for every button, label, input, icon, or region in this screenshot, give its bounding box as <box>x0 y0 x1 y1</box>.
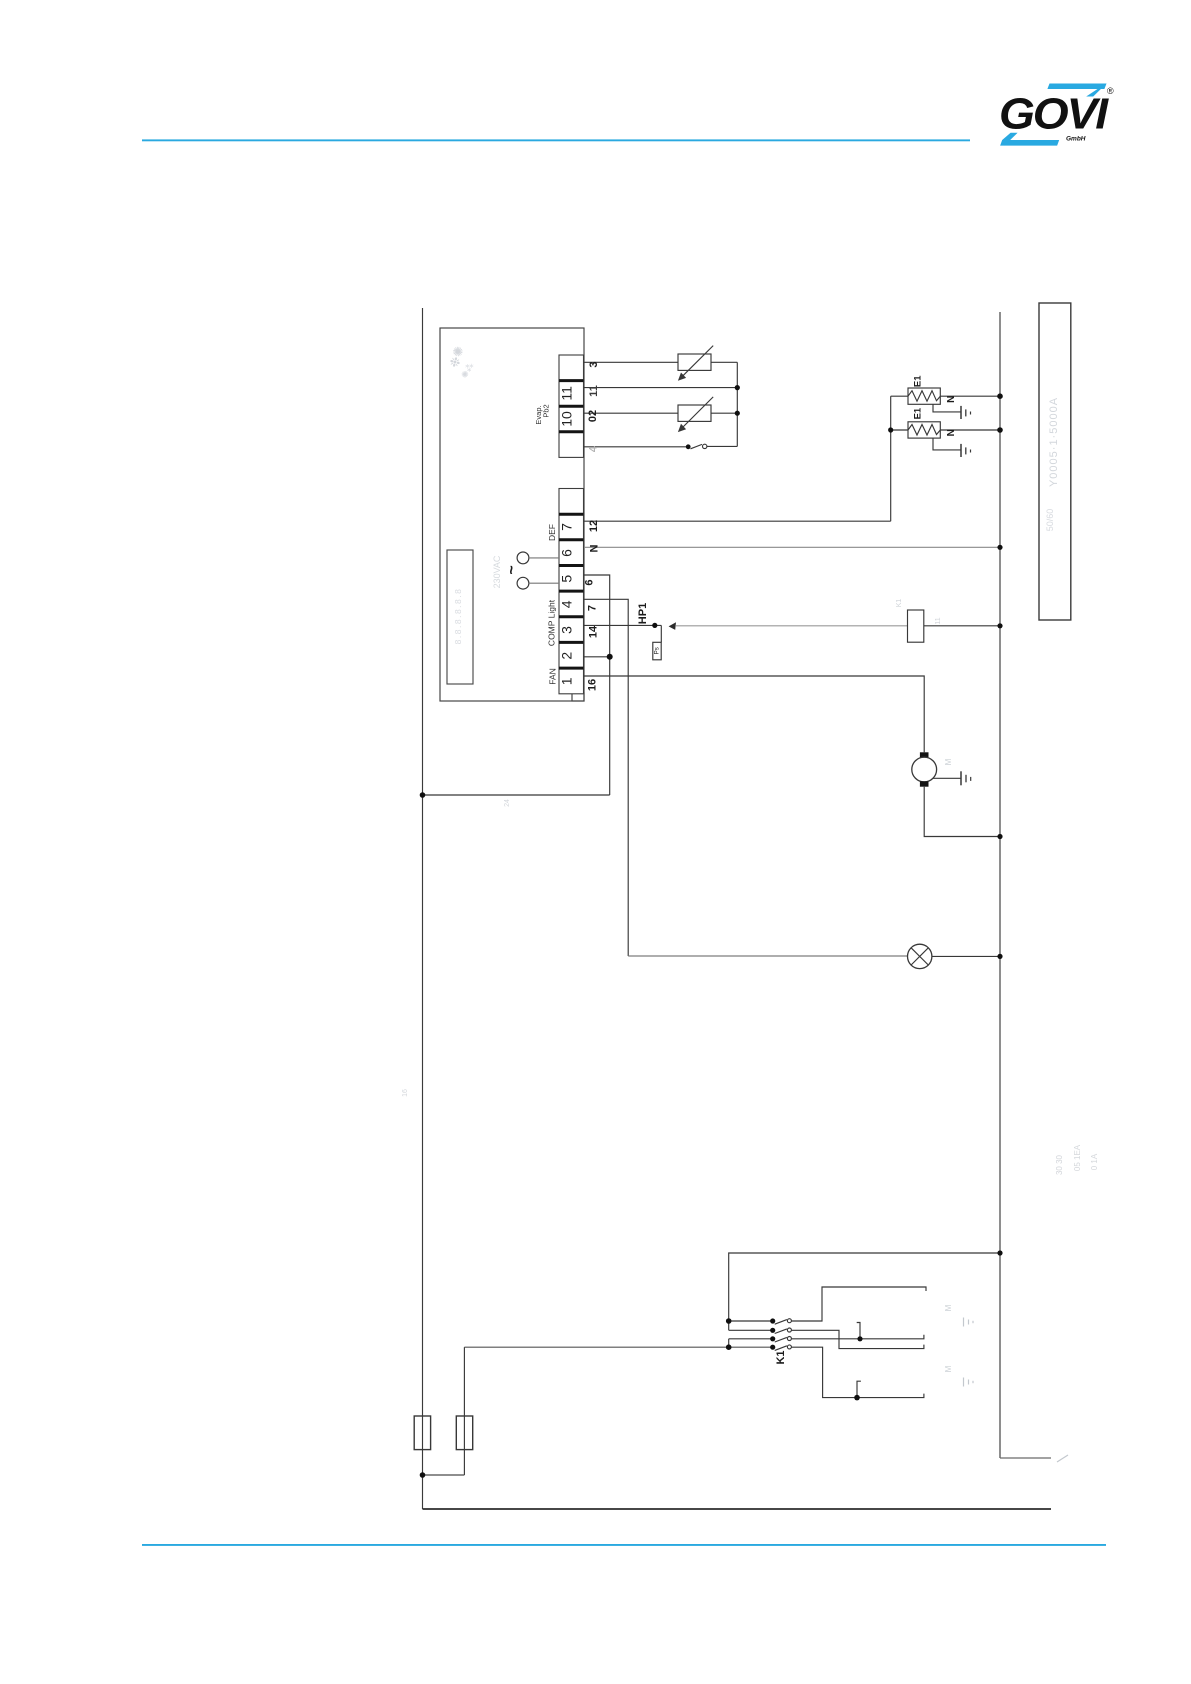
relay coil K1 <box>908 610 924 642</box>
svg-text:3: 3 <box>559 626 575 634</box>
node row4 stub <box>854 1395 860 1401</box>
svg-text:COMP Light: COMP Light <box>547 599 557 646</box>
K1 moving contact pivots <box>770 1318 775 1323</box>
K1 rows 3-4 jumper <box>728 1339 730 1347</box>
node wire02/probe <box>735 411 740 416</box>
row 4 stub <box>857 1381 861 1397</box>
svg-text:HP1: HP1 <box>637 603 649 624</box>
wire 7 (terminal 4) <box>584 599 628 956</box>
terminal block lower (1-7) <box>559 489 584 694</box>
svg-text:N: N <box>589 544 601 552</box>
K1 contact row 1 wire <box>729 1320 773 1322</box>
svg-text:5: 5 <box>559 575 575 583</box>
defrost switch contact <box>691 444 703 448</box>
wire 16 (terminal 1) <box>584 676 924 752</box>
K1 output row 2 <box>791 1330 924 1348</box>
node heater left <box>888 427 893 432</box>
svg-text:7: 7 <box>587 605 599 611</box>
wire 3 <box>584 361 678 363</box>
K1 output row 3 <box>791 1335 924 1339</box>
node N bus <box>997 545 1002 550</box>
row 3 stub <box>857 1323 860 1339</box>
K1 contact 2 <box>775 1329 787 1334</box>
right supply bus N <box>999 312 1001 1458</box>
svg-text:K1: K1 <box>896 599 903 608</box>
HP1 pressure switch <box>660 625 662 642</box>
wire 11 <box>584 387 737 389</box>
fuse F2 <box>456 1416 472 1450</box>
svg-text:16: 16 <box>402 1089 409 1097</box>
K1 contact 4 <box>775 1346 787 1351</box>
left supply bus L <box>422 308 424 1509</box>
heater E1a left wire <box>891 395 908 397</box>
GOVI logo blue bottom bracket <box>1000 140 1059 146</box>
svg-text:24: 24 <box>504 799 511 807</box>
svg-text:16: 16 <box>587 679 599 691</box>
K1 contact row 3 wire <box>729 1338 773 1340</box>
F2 to left bus <box>423 1474 465 1476</box>
K1 feed from bus <box>729 1253 1000 1330</box>
wire N <box>584 546 1000 548</box>
node terminal2 <box>607 654 613 660</box>
AC supply terminal b <box>517 577 529 589</box>
K1 contact 1 <box>775 1320 787 1325</box>
svg-text:2: 2 <box>559 652 575 660</box>
heater E1a <box>908 388 940 404</box>
header rule <box>142 139 970 141</box>
node coil bus <box>997 623 1002 628</box>
controller display window <box>447 550 473 684</box>
svg-text:8.8.8.8.8.8: 8.8.8.8.8.8 <box>453 588 463 645</box>
svg-text:05 1EA: 05 1EA <box>1073 1144 1082 1171</box>
svg-text:Y0005·1·5000A: Y0005·1·5000A <box>1048 397 1060 487</box>
node motor bus <box>997 834 1002 839</box>
motor to bus <box>924 787 1000 837</box>
wire terminal 2 <box>584 656 610 658</box>
motor ground <box>933 777 961 779</box>
K1 output row 1 <box>791 1287 926 1321</box>
fan motor M1 <box>920 752 929 757</box>
lamp H1 <box>908 944 932 968</box>
node K1 row1 <box>726 1318 732 1324</box>
lamp to bus <box>932 955 1000 957</box>
svg-text:N: N <box>946 429 957 436</box>
svg-text:50/60: 50/60 <box>1045 509 1055 532</box>
box bottom notch <box>572 693 584 701</box>
node wire11/probe <box>735 385 740 390</box>
K1 contact row 2 wire <box>729 1329 773 1331</box>
lamp feed wire <box>628 955 907 957</box>
svg-text:M: M <box>944 758 953 765</box>
footer rule <box>142 1544 1106 1546</box>
wire 4 <box>584 446 686 448</box>
node lamp bus <box>997 954 1002 959</box>
probe Pb2 (variable resistor) <box>678 405 711 421</box>
svg-text:14: 14 <box>588 625 600 638</box>
svg-text:11: 11 <box>588 385 600 397</box>
svg-text:E1: E1 <box>913 375 924 387</box>
svg-text:12: 12 <box>588 520 600 532</box>
faded ground near K1 row1 <box>963 1318 965 1327</box>
fuse F1 <box>414 1416 430 1450</box>
svg-text:6: 6 <box>559 549 575 557</box>
heater E1b to bus <box>940 429 1000 431</box>
node E1b bus <box>997 427 1003 433</box>
faded diagonal mark <box>1057 1455 1068 1462</box>
bottom return line <box>423 1508 1052 1510</box>
svg-text:02: 02 <box>587 410 599 422</box>
heater E1b <box>908 422 940 438</box>
fuse feed wire to K1 row 4 <box>464 1346 772 1348</box>
svg-text:FAN: FAN <box>548 668 558 685</box>
faded ground near K1 row4 <box>963 1378 965 1387</box>
AC supply terminal a <box>517 552 529 564</box>
svg-text:DEF: DEF <box>547 524 557 541</box>
wire 6 (terminal 5) <box>584 575 610 795</box>
terminal block upper (Evap/Pb2) <box>559 355 584 457</box>
probe Pb1 (variable resistor) <box>678 354 711 370</box>
svg-text:6: 6 <box>584 579 596 585</box>
svg-text:Ps: Ps <box>654 647 661 654</box>
K1 output row 4 <box>791 1347 924 1397</box>
svg-text:30 30: 30 30 <box>1055 1154 1064 1175</box>
wire 12 riser <box>890 396 892 521</box>
node left bus <box>420 792 426 798</box>
node defrost switch <box>686 444 691 449</box>
svg-text:E1: E1 <box>913 407 924 419</box>
coil to bus <box>924 625 1000 627</box>
svg-text:~: ~ <box>504 565 521 574</box>
svg-text:Pb2: Pb2 <box>542 404 551 417</box>
GOVI logo blue top bracket <box>1000 84 1106 146</box>
K1 contact 3 <box>775 1337 787 1342</box>
wire 02 to node <box>711 412 737 414</box>
node fuse bus <box>420 1472 426 1478</box>
probe common vertical <box>736 362 738 446</box>
svg-text:N: N <box>946 396 957 403</box>
svg-text:3: 3 <box>588 361 600 367</box>
heater E1a to bus <box>940 395 1000 397</box>
svg-text:230VAC: 230VAC <box>492 555 502 588</box>
node K1 bus <box>997 1250 1002 1255</box>
svg-text:10: 10 <box>559 411 575 427</box>
svg-text:K1: K1 <box>775 1350 787 1364</box>
heater E1b ground <box>933 438 961 450</box>
wire 12 <box>584 520 891 522</box>
heater E1a ground <box>933 404 961 412</box>
svg-text:M: M <box>944 1304 953 1311</box>
controller box U1 <box>440 328 584 701</box>
svg-text:11: 11 <box>559 386 575 401</box>
svg-text:®: ® <box>1107 86 1114 96</box>
svg-text:4: 4 <box>559 600 575 608</box>
wire 02 <box>584 412 678 414</box>
svg-text:GmbH: GmbH <box>1066 136 1086 143</box>
node E1a bus <box>997 393 1003 399</box>
svg-text:GOVI: GOVI <box>999 90 1109 139</box>
wire 14 <box>584 624 661 626</box>
svg-text:7: 7 <box>559 523 575 531</box>
right bus bottom stub <box>1000 1457 1051 1459</box>
wire to left bus <box>423 794 610 796</box>
wire 3 to node <box>711 361 737 363</box>
svg-text:0 1A: 0 1A <box>1090 1153 1099 1170</box>
node row3 stub <box>857 1336 862 1341</box>
node HP1 <box>652 623 657 628</box>
svg-text:11: 11 <box>935 617 942 624</box>
heater E1b left wire <box>891 429 908 431</box>
node K1 row4 <box>726 1344 732 1350</box>
svg-text:4: 4 <box>588 445 600 452</box>
fuse F2 lead upper <box>463 1347 465 1475</box>
title block rectangle <box>1039 303 1071 620</box>
svg-text:1: 1 <box>559 677 575 685</box>
svg-text:M: M <box>944 1365 953 1372</box>
wire 14 to relay coil <box>676 625 908 627</box>
